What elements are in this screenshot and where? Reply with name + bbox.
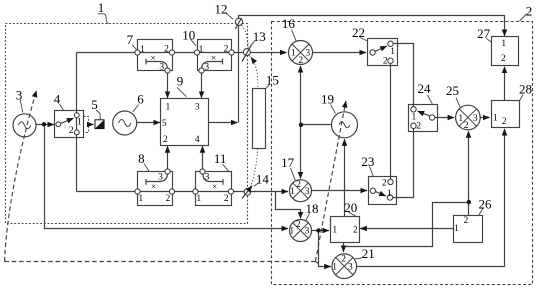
svg-text:2: 2 [69,126,74,136]
svg-text:4: 4 [195,135,200,145]
svg-text:2: 2 [224,45,229,55]
svg-text:18: 18 [306,201,319,216]
svg-text:20: 20 [344,200,357,215]
svg-text:1: 1 [332,225,337,235]
svg-text:1: 1 [291,49,296,59]
svg-text:16: 16 [282,16,296,31]
svg-text:2: 2 [382,179,387,189]
svg-text:1: 1 [196,194,201,204]
svg-text:1: 1 [290,187,295,197]
svg-text:21: 21 [362,246,375,261]
svg-text:1: 1 [98,0,105,15]
svg-text:×: × [151,183,156,193]
svg-text:2: 2 [341,254,346,264]
svg-text:2: 2 [526,3,533,18]
svg-text:1: 1 [166,102,171,112]
svg-text:15: 15 [266,73,279,88]
svg-text:3: 3 [305,187,310,197]
svg-text:2: 2 [383,57,388,67]
svg-text:14: 14 [256,172,270,187]
svg-text:1: 1 [289,227,294,237]
svg-text:7: 7 [127,32,134,47]
svg-text:12: 12 [215,1,228,16]
svg-text:1: 1 [332,263,337,273]
svg-text:2: 2 [163,135,168,145]
svg-text:2: 2 [298,56,303,66]
svg-text:2: 2 [464,121,469,131]
svg-text:3: 3 [305,49,310,59]
svg-text:2: 2 [416,121,421,131]
svg-text:1: 1 [199,45,204,55]
svg-text:6: 6 [137,91,144,106]
svg-text:3: 3 [16,87,23,102]
svg-text:3: 3 [195,102,200,112]
svg-text:5: 5 [162,119,167,129]
svg-text:17: 17 [281,155,295,170]
svg-text:13: 13 [253,29,266,44]
svg-text:2: 2 [464,216,469,226]
svg-text:8: 8 [138,151,145,166]
svg-text:1: 1 [390,47,395,57]
svg-text:3: 3 [205,173,210,183]
svg-text:1: 1 [138,194,143,204]
svg-text:×: × [211,54,216,64]
svg-text:4: 4 [54,91,61,106]
svg-text:5: 5 [91,97,98,112]
svg-text:2: 2 [296,180,301,190]
svg-text:×: × [150,54,155,64]
svg-text:3: 3 [348,263,353,273]
svg-text:2: 2 [164,45,169,55]
svg-text:9: 9 [177,74,184,89]
svg-text:1: 1 [140,45,145,55]
svg-text:23: 23 [361,154,374,169]
svg-text:25: 25 [446,83,459,98]
svg-text:1: 1 [493,114,498,124]
svg-text:2: 2 [353,225,358,235]
svg-text:1: 1 [387,189,392,199]
svg-text:11: 11 [214,151,227,166]
svg-text:19: 19 [321,92,334,107]
svg-text:24: 24 [418,81,432,96]
svg-text:27: 27 [477,26,491,41]
svg-text:3: 3 [159,63,164,73]
svg-text:28: 28 [519,82,532,97]
svg-text:3: 3 [204,63,209,73]
svg-text:2: 2 [166,194,171,204]
svg-text:22: 22 [352,25,365,40]
svg-text:1: 1 [77,118,82,128]
svg-text:2: 2 [296,220,301,230]
svg-text:3: 3 [305,227,310,237]
svg-text:2: 2 [501,54,506,64]
svg-text:2: 2 [224,194,229,204]
svg-text:1: 1 [454,224,459,234]
svg-text:2: 2 [502,117,507,127]
svg-text:3: 3 [473,114,478,124]
svg-text:×: × [212,183,217,193]
svg-text:10: 10 [182,27,195,42]
svg-text:1: 1 [501,39,506,49]
svg-text:1: 1 [458,114,463,124]
svg-text:3: 3 [158,173,163,183]
svg-text:26: 26 [479,197,493,212]
